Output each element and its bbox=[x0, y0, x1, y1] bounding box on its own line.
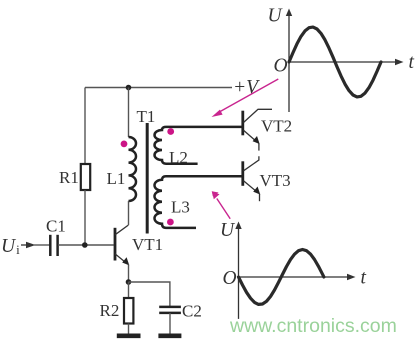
wire C1 to base bbox=[58, 244, 114, 246]
wire input to C1 bbox=[34, 244, 50, 246]
node emitter junction bbox=[126, 279, 132, 285]
graph top: U axis bbox=[286, 9, 292, 113]
svg-text:R1: R1 bbox=[59, 168, 79, 187]
svg-text:U: U bbox=[268, 6, 284, 27]
svg-text:L3: L3 bbox=[171, 198, 190, 217]
curve sine bottom bbox=[239, 250, 324, 305]
node dot L1 (phase) bbox=[121, 141, 128, 148]
node dot L2 (phase) bbox=[167, 128, 174, 135]
svg-text:VT1: VT1 bbox=[132, 235, 163, 254]
wire junction to R2 bbox=[128, 282, 130, 298]
graph bottom: U axis bbox=[235, 222, 241, 319]
svg-text:C1: C1 bbox=[46, 217, 66, 236]
wire R1 bottom bbox=[84, 190, 86, 245]
wire top supply rail bbox=[85, 87, 232, 89]
ground under R2 bbox=[117, 333, 141, 338]
svg-text:C2: C2 bbox=[182, 302, 202, 321]
svg-text:R2: R2 bbox=[100, 301, 120, 320]
inductor L2 bbox=[155, 127, 243, 164]
transformer core bbox=[146, 123, 149, 234]
graph bottom: t axis bbox=[239, 274, 356, 280]
svg-text:L2: L2 bbox=[169, 148, 188, 167]
svg-text:+V: +V bbox=[233, 77, 260, 98]
node base junction bbox=[82, 242, 88, 248]
transistor VT3 bbox=[243, 156, 260, 201]
ground under C2 bbox=[158, 333, 181, 338]
graph top: t axis bbox=[289, 59, 404, 65]
svg-text:U: U bbox=[220, 220, 236, 241]
svg-text:t: t bbox=[361, 268, 367, 289]
wire C2 to ground bbox=[169, 313, 171, 334]
svg-text:L1: L1 bbox=[107, 169, 126, 188]
wire left drop to R1 bbox=[84, 88, 86, 165]
capacitor C2 bbox=[159, 307, 181, 313]
svg-text:t: t bbox=[409, 52, 415, 73]
wire VT1 emitter down bbox=[128, 265, 130, 283]
node junction top rail / L1 bbox=[126, 85, 132, 91]
capacitor C1 bbox=[50, 235, 57, 256]
svg-text:O: O bbox=[274, 56, 288, 77]
curve sine top bbox=[289, 27, 381, 97]
node dot L3 (phase) bbox=[167, 219, 174, 226]
wire junction to C2 bbox=[129, 282, 170, 307]
input arrow bbox=[21, 242, 36, 248]
wire R2 to ground bbox=[128, 324, 130, 335]
resistor R2 bbox=[124, 298, 133, 324]
svg-text:O: O bbox=[223, 268, 237, 289]
arrow magenta top bbox=[212, 79, 279, 117]
arrow magenta bottom bbox=[212, 191, 230, 219]
inductor L3 bbox=[155, 176, 243, 228]
transistor VT1 bbox=[115, 225, 129, 265]
transistor VT2 bbox=[243, 109, 272, 150]
resistor R1 bbox=[81, 164, 90, 190]
inductor L1 bbox=[129, 88, 137, 226]
svg-text:www.cntronics.com: www.cntronics.com bbox=[229, 315, 397, 337]
svg-text:VT2: VT2 bbox=[261, 117, 292, 136]
svg-text:VT3: VT3 bbox=[260, 171, 291, 190]
